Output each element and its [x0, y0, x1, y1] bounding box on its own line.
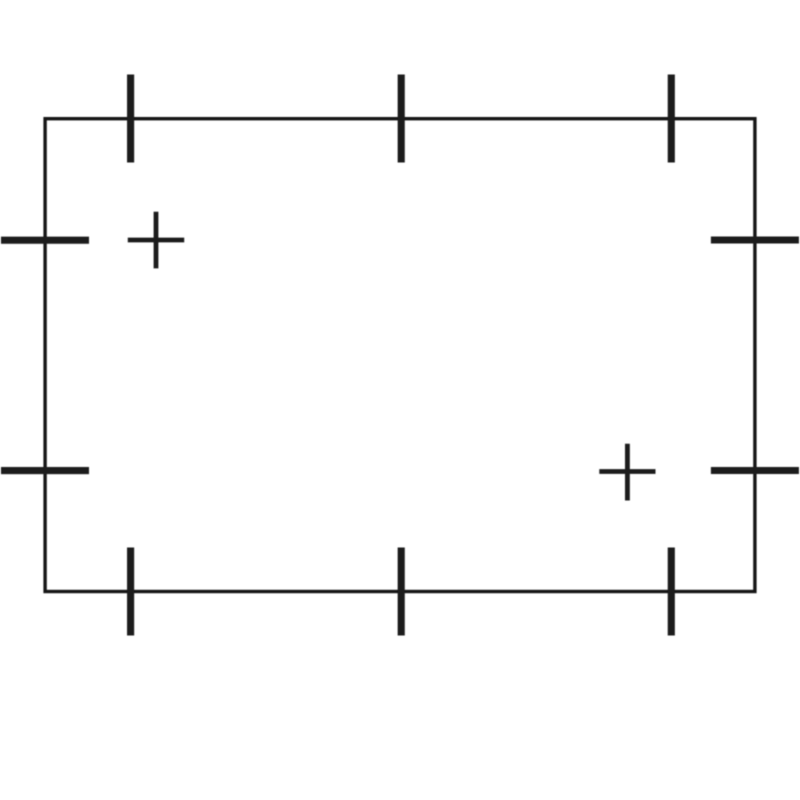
- top tick T1: [127, 75, 134, 163]
- cross mark X2: [599, 444, 655, 501]
- right tick R1: [711, 236, 799, 243]
- left tick L1: [1, 237, 89, 244]
- frame border rectangle: [45, 119, 755, 592]
- top tick T2: [398, 75, 405, 163]
- bottom tick B3: [668, 548, 675, 636]
- left tick L2: [1, 467, 89, 474]
- bottom tick B2: [398, 548, 405, 636]
- right tick R2: [711, 467, 799, 474]
- bottom tick B1: [127, 548, 134, 636]
- top tick T3: [668, 75, 675, 163]
- cross mark X1: [128, 212, 184, 269]
